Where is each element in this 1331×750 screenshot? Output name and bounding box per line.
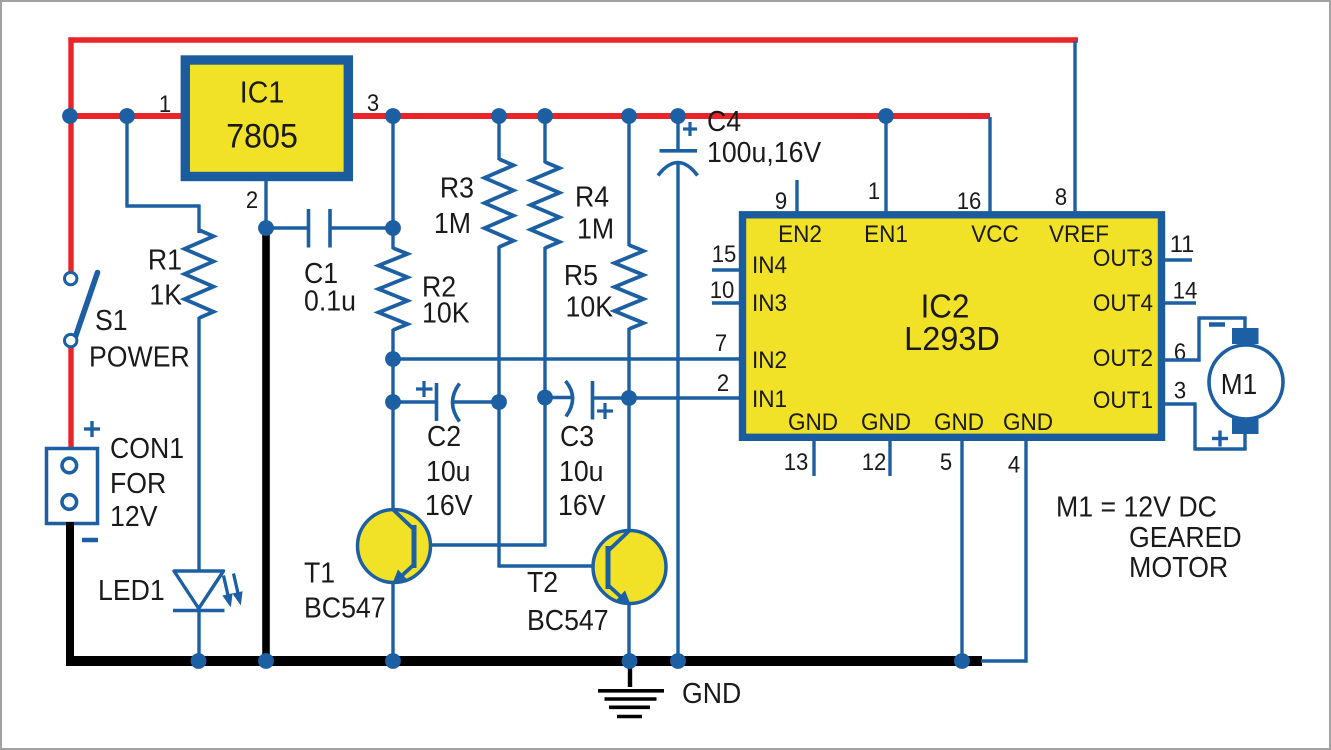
svg-text:12: 12 [862, 449, 887, 476]
wire OUT1 to motor [1164, 404, 1247, 451]
svg-text:OUT2: OUT2 [1093, 345, 1153, 372]
pin 3 label [1174, 378, 1186, 405]
label R5 10K [564, 260, 614, 324]
svg-text:12V: 12V [110, 501, 158, 533]
pin 15 label [712, 241, 737, 268]
IC2 label IN3 [752, 290, 787, 317]
svg-text:IN4: IN4 [752, 252, 787, 279]
label T1 BC547 [304, 558, 386, 625]
label C4 100u,16V [707, 106, 822, 169]
pin 16 label [957, 188, 982, 215]
IC1 pin 1 label [159, 91, 171, 118]
IC2 pin 14 stub OUT4 [1164, 301, 1196, 304]
label R3 1M [434, 173, 474, 241]
IC2 label OUT4 [1093, 290, 1153, 317]
svg-text:1M: 1M [434, 208, 471, 240]
IC2 pin 10 stub IN3 [712, 301, 740, 304]
IC2 pin 9 stub EN2 [795, 180, 798, 213]
wire bus to R3 [497, 116, 500, 160]
capacitor C2 [437, 383, 460, 422]
IC2 label EN1 [864, 221, 908, 248]
resistor R2 [379, 248, 408, 330]
wire IN2 net [393, 357, 740, 360]
node IC1 pin2 / C1 [258, 220, 274, 236]
label C3 10u 16V [558, 421, 606, 522]
ground bus [66, 656, 982, 666]
svg-text:GND: GND [1003, 409, 1053, 436]
svg-text:16V: 16V [558, 490, 606, 522]
IC2 label GND pins [788, 409, 1053, 436]
node gnd T2 [622, 653, 638, 669]
svg-text:10K: 10K [566, 292, 614, 324]
motor driver IC2 L293D [743, 215, 1162, 437]
wire T2 emitter to ground [627, 604, 630, 658]
svg-text:1K: 1K [149, 280, 182, 312]
switch S1 [65, 272, 98, 346]
wire R3 to C2 [497, 246, 500, 402]
label R4 1M [575, 182, 614, 246]
svg-text:R1: R1 [148, 245, 182, 277]
svg-text:OUT3: OUT3 [1093, 245, 1153, 272]
svg-text:13: 13 [784, 449, 809, 476]
node C2 right [491, 394, 507, 410]
svg-text:R3: R3 [440, 173, 474, 205]
svg-text:R4: R4 [575, 182, 609, 214]
pin 10 label [710, 277, 735, 304]
IC2 label IN2 [752, 347, 787, 374]
svg-text:M1 = 12V DC: M1 = 12V DC [1056, 492, 1217, 524]
motor M1 [1209, 328, 1283, 434]
label R1 1K [148, 245, 183, 312]
svg-text:10u: 10u [559, 456, 604, 488]
svg-text:IC1: IC1 [240, 75, 284, 110]
IC2 label VREF [1049, 221, 1109, 248]
IC2 label EN2 [778, 221, 822, 248]
wire bus to R5 [627, 116, 630, 246]
svg-text:IN1: IN1 [752, 386, 787, 413]
svg-text:9: 9 [775, 188, 787, 215]
pin 5 label [940, 449, 952, 476]
label CON1 FOR 12V [110, 433, 184, 533]
wire IN1 net [629, 396, 740, 399]
svg-text:8: 8 [1055, 184, 1067, 211]
pin 12 label [862, 449, 887, 476]
wire C1 right [332, 226, 394, 229]
wire OUT2 to motor [1164, 316, 1247, 361]
svg-text:VREF: VREF [1049, 221, 1109, 248]
svg-text:16: 16 [957, 188, 982, 215]
wire bus to R2 [391, 116, 394, 249]
svg-text:GND: GND [934, 409, 984, 436]
pin 13 label [784, 449, 809, 476]
svg-text:2: 2 [717, 370, 729, 397]
node C4 top [670, 108, 686, 124]
wire C2 left [393, 400, 436, 403]
svg-text:16V: 16V [425, 490, 473, 522]
CON1 plus mark [84, 421, 100, 437]
IC2 label IN4 [752, 252, 787, 279]
motor plus mark [1212, 431, 1228, 447]
wire R1 to LED1 [197, 317, 200, 572]
wire C3/R4 to T1 base [414, 397, 545, 547]
capacitor C3 [566, 381, 593, 420]
label C1 0.1u [304, 258, 356, 318]
svg-text:BC547: BC547 [527, 605, 609, 637]
IC2 label VCC [971, 221, 1019, 248]
svg-text:GND: GND [682, 678, 741, 710]
svg-text:7: 7 [715, 330, 727, 357]
voltage regulator IC1 7805 [185, 60, 348, 177]
svg-text:10u: 10u [426, 456, 471, 488]
svg-text:5: 5 [940, 449, 952, 476]
C2 plus mark [416, 381, 433, 397]
IC2 label OUT1 [1093, 387, 1153, 414]
svg-text:IN2: IN2 [752, 347, 787, 374]
pin 8 label [1055, 184, 1067, 211]
label LED1 [98, 575, 165, 607]
label GND [682, 678, 741, 710]
wire IC1 pin 2 [264, 181, 267, 228]
wire CON1 minus to ground (black) [66, 522, 74, 666]
svg-text:IC2: IC2 [921, 288, 970, 325]
CON1 minus mark [82, 538, 98, 543]
svg-text:15: 15 [712, 241, 737, 268]
svg-text:10: 10 [710, 277, 735, 304]
svg-text:OUT4: OUT4 [1093, 290, 1153, 317]
wire bus to R1 [125, 116, 199, 233]
wire R4 to C3 [543, 247, 546, 398]
wire V+ left drop [68, 37, 73, 271]
wire VREF pin 8 [1073, 41, 1076, 213]
svg-text:10K: 10K [422, 298, 470, 330]
node gnd T1 [385, 653, 401, 669]
node gnd pin5 [954, 653, 970, 669]
connector CON1 [47, 449, 98, 524]
svg-text:MOTOR: MOTOR [1129, 552, 1228, 584]
svg-text:1: 1 [159, 91, 171, 118]
wire R2 to IN2 node [391, 329, 394, 403]
IC2 label OUT2 [1093, 345, 1153, 372]
node C3 right [621, 390, 637, 406]
svg-text:3: 3 [367, 90, 379, 117]
svg-text:M1: M1 [1221, 369, 1257, 401]
wire T2 collector [627, 397, 630, 531]
node V+ corner [62, 108, 78, 124]
wire bus to C4 [676, 116, 679, 150]
node R4 top [537, 108, 553, 124]
svg-text:14: 14 [1173, 278, 1198, 305]
svg-text:GND: GND [788, 409, 838, 436]
C4 plus mark [683, 122, 697, 136]
svg-text:L293D: L293D [904, 321, 1000, 358]
wire C4 to ground [676, 163, 679, 658]
IC1 pin 3 label [367, 90, 379, 117]
wire V+ top rail [68, 37, 1078, 42]
svg-text:VCC: VCC [971, 221, 1019, 248]
IC2 pin 13 stub GND [812, 439, 815, 476]
svg-text:EN2: EN2 [778, 221, 822, 248]
pin 7 label [715, 330, 727, 357]
svg-text:C3: C3 [560, 421, 594, 453]
svg-text:11: 11 [1170, 231, 1195, 258]
svg-text:6: 6 [1174, 339, 1186, 366]
node C1-R2 [385, 220, 401, 236]
resistor R5 [615, 245, 644, 329]
node gnd LED1 [191, 653, 207, 669]
pin 11 label [1170, 231, 1195, 258]
node R2 top [385, 108, 401, 124]
node gnd IC1 [258, 653, 274, 669]
resistor R3 [485, 159, 514, 247]
svg-text:3: 3 [1174, 378, 1186, 405]
transistor T1 BC547 [358, 510, 431, 585]
svg-text:IN3: IN3 [752, 290, 787, 317]
svg-text:7805: 7805 [226, 118, 298, 156]
IC2 pin 15 stub IN4 [712, 268, 740, 271]
svg-text:POWER: POWER [89, 342, 190, 374]
wire EN1 pin 1 [884, 116, 887, 213]
note M1 description [1056, 492, 1242, 585]
wire IC1 pin2 ground (black) [262, 228, 270, 661]
svg-text:OUT1: OUT1 [1093, 387, 1153, 414]
wire C1 left [266, 226, 307, 229]
resistor R4 [531, 162, 560, 248]
LED LED1 [173, 571, 243, 611]
wire IC2 pin 5 to ground [960, 439, 963, 658]
node gnd C4 [670, 653, 686, 669]
C3 plus mark [597, 403, 613, 419]
svg-text:R5: R5 [564, 260, 598, 292]
IC2 pin 12 stub GND [888, 439, 891, 476]
svg-text:T2: T2 [527, 567, 558, 599]
node IN2 tap [385, 351, 401, 367]
motor minus mark [1209, 322, 1225, 327]
svg-text:GND: GND [861, 409, 911, 436]
wire C3 left [545, 396, 573, 399]
svg-text:LED1: LED1 [98, 575, 165, 607]
wire C2/R3 to T2 base [499, 401, 609, 568]
pin 14 label [1173, 278, 1198, 305]
wire VCC pin 16 [988, 117, 991, 213]
svg-text:0.1u: 0.1u [304, 286, 356, 318]
label T2 BC547 [527, 567, 609, 637]
ground symbol [598, 664, 664, 717]
wire T1 emitter to ground [391, 583, 394, 658]
svg-text:C4: C4 [707, 106, 741, 138]
resistor R1 [185, 230, 214, 318]
pin 9 label [775, 188, 787, 215]
svg-text:BC547: BC547 [304, 593, 386, 625]
IC2 label IN1 [752, 386, 787, 413]
wire S1 to CON1 (red) [68, 348, 73, 449]
node R3 top [491, 108, 507, 124]
transistor T2 BC547 [593, 531, 666, 606]
svg-text:1: 1 [868, 178, 880, 205]
IC2 pin 11 stub OUT3 [1164, 258, 1192, 261]
node R5 top [621, 108, 637, 124]
svg-text:FOR: FOR [110, 468, 166, 500]
wire IC2 pin 4 to ground [981, 439, 1026, 663]
wire T1 collector [391, 402, 394, 511]
wire LED1 to ground [197, 610, 200, 658]
capacitor C1 [309, 209, 331, 248]
IC1 pin 2 label [246, 187, 258, 214]
wire C2 right [453, 400, 500, 403]
pin 1 label [868, 178, 880, 205]
IC2 label OUT3 [1093, 245, 1153, 272]
wire R5 to IN1 node [627, 328, 630, 398]
pin 4 label [1008, 452, 1020, 479]
node EN1 tap [878, 108, 894, 124]
svg-text:T1: T1 [304, 558, 335, 590]
svg-text:CON1: CON1 [110, 433, 184, 465]
node C3 left [537, 390, 553, 406]
label C2 10u 16V [425, 421, 473, 522]
svg-text:100u,16V: 100u,16V [707, 137, 822, 169]
node C2 left [385, 394, 401, 410]
wire 12V bus to IC1 pin 1 [68, 113, 182, 119]
pin 2 label [717, 370, 729, 397]
wire C3 right [594, 396, 629, 399]
svg-text:EN1: EN1 [864, 221, 908, 248]
label R2 10K [422, 272, 470, 330]
wire bus to R4 [543, 116, 546, 163]
svg-text:1M: 1M [577, 214, 614, 246]
svg-text:4: 4 [1008, 452, 1020, 479]
svg-text:GEARED: GEARED [1129, 522, 1242, 554]
wire 5V bus IC1 pin 3 to VCC [352, 113, 990, 119]
pin 6 label [1174, 339, 1186, 366]
capacitor C4 [658, 151, 698, 176]
label S1 POWER [89, 305, 190, 374]
svg-text:2: 2 [246, 187, 258, 214]
node R1 tap [119, 108, 135, 124]
svg-text:C2: C2 [427, 421, 461, 453]
svg-text:S1: S1 [95, 305, 128, 337]
